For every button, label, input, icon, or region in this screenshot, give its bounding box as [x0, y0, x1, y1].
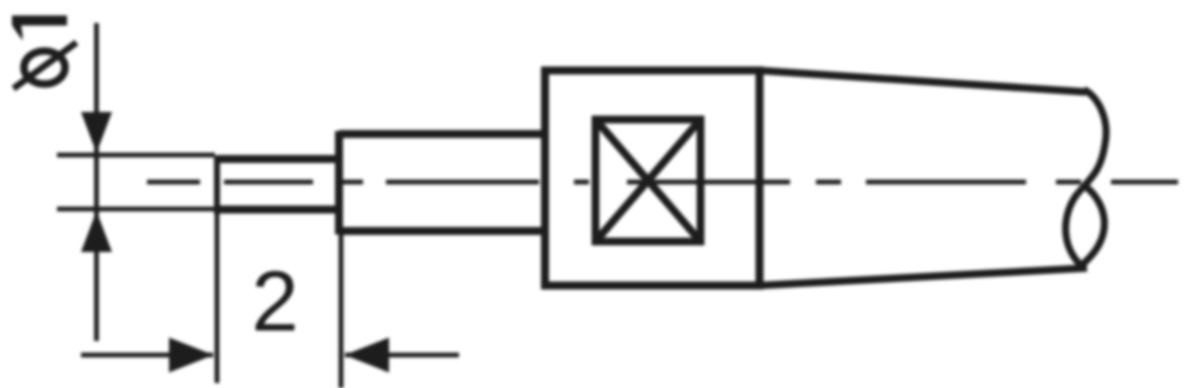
svg-text:2: 2 — [251, 255, 298, 350]
